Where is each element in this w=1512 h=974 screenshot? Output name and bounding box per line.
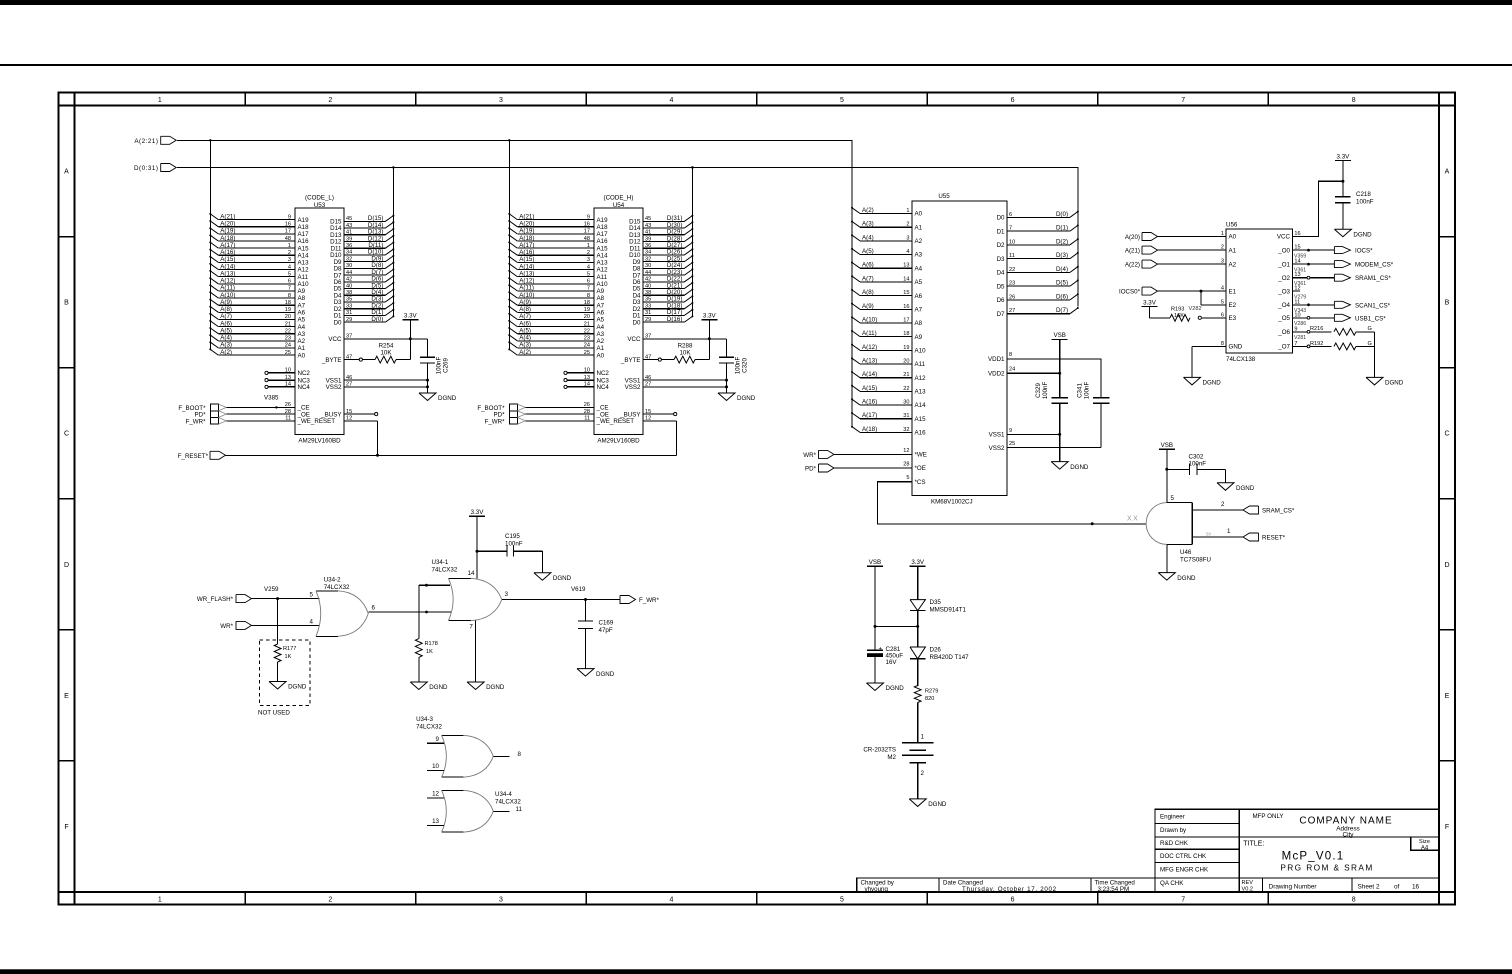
svg-text:VSS2: VSS2 [989,445,1005,452]
svg-text:VSB: VSB [869,559,881,566]
data bus entries out of U54 [643,215,693,323]
svg-text:R216: R216 [1310,326,1323,332]
svg-text:MFP ONLY: MFP ONLY [1253,813,1284,820]
capacitor C195 100nF [477,533,542,573]
svg-text:A(3): A(3) [519,342,531,349]
wire VDD2 pin24 of U55 [1007,372,1061,375]
svg-text:4: 4 [310,618,314,625]
svg-text:12: 12 [432,791,439,798]
wire VCC pin37 of U54 [643,337,727,340]
wires VSS1/VSS2 of U53 [344,379,429,389]
resistor R254 10K pull-up on _BYTE [344,339,410,363]
svg-text:D: D [64,562,69,569]
svg-text:2: 2 [921,770,925,777]
svg-text:D(0): D(0) [371,316,383,323]
svg-text:A8: A8 [298,295,306,302]
svg-text:V361: V361 [1294,267,1306,273]
svg-text:_O0: _O0 [1277,247,1290,254]
svg-text:8: 8 [1352,897,1356,904]
svg-text:_O1: _O1 [1277,261,1290,268]
svg-text:100nF: 100nF [735,357,742,375]
ground DGND below C281 [867,683,905,692]
wire U56 GND pin8 to ground [1192,346,1226,377]
capacitor C281 450uF 16V electrolytic [867,646,903,683]
svg-text:47pF: 47pF [599,627,613,634]
resistor R216 on U56 _O6 [1292,326,1374,341]
svg-text:_O5: _O5 [1277,315,1290,322]
svg-text:A(17): A(17) [862,412,877,419]
svg-text:MMSD914T1: MMSD914T1 [930,607,967,614]
svg-text:(CODE_L): (CODE_L) [305,195,334,202]
input connector A(20) to U56 [1125,233,1226,241]
svg-text:VCC: VCC [1277,234,1291,241]
ground DGND below battery M2 [909,799,947,808]
svg-text:G: G [1368,326,1372,332]
svg-text:A(16): A(16) [862,399,877,406]
svg-text:D26: D26 [930,647,942,654]
svg-text:IOCS*: IOCS* [1355,248,1373,255]
D bus vertical wire for U54 [691,166,693,316]
wire U56 VCC pin16 to 3.3V [1292,180,1344,237]
svg-text:R279: R279 [925,688,938,694]
svg-text:_O4: _O4 [1277,302,1290,309]
svg-text:C195: C195 [505,533,520,540]
svg-text:D4: D4 [997,270,1005,277]
svg-text:_BYTE: _BYTE [321,357,342,364]
svg-text:DGND: DGND [596,671,615,678]
svg-text:D6: D6 [997,297,1005,304]
svg-text:SRAM1_CS*: SRAM1_CS* [1355,275,1391,282]
svg-text:R193: R193 [1171,307,1184,313]
svg-text:KM68V1002CJ: KM68V1002CJ [931,499,973,506]
svg-text:A(20): A(20) [220,221,235,228]
svg-text:A5: A5 [298,317,306,324]
svg-text:A19: A19 [298,217,310,224]
ground DGND below C195 [534,573,572,582]
svg-text:A6: A6 [298,310,306,317]
svg-text:Sheet 2: Sheet 2 [1358,884,1380,891]
svg-text:2: 2 [1221,501,1225,508]
svg-text:1: 1 [158,897,162,904]
svg-text:E2: E2 [1229,302,1237,309]
svg-text:Engineer: Engineer [1160,814,1185,821]
battery M2 CR-2032TS [863,734,933,799]
wire _BUSY pin15 of U54 [643,413,677,416]
svg-text:WR*: WR* [220,623,233,630]
svg-text:A0: A0 [597,352,605,359]
svg-text:A(11): A(11) [519,285,534,292]
svg-text:VCC: VCC [627,336,641,343]
power VSB above U55 decoupling [1052,332,1068,398]
svg-text:A17: A17 [597,231,609,238]
ground DGND below U46 [1158,544,1196,581]
svg-text:10: 10 [432,763,439,770]
svg-text:A(6): A(6) [519,320,531,327]
svg-text:D0: D0 [334,319,342,326]
svg-text:U34-1: U34-1 [432,559,449,566]
wire VDD1 pin8 of U55 [1007,359,1101,398]
svg-text:5: 5 [906,475,909,481]
svg-text:_O6: _O6 [1277,329,1290,336]
svg-text:A4: A4 [1421,845,1429,851]
svg-text:A(7): A(7) [519,313,531,320]
page bottom black bar [0,969,1512,974]
svg-text:A(3): A(3) [862,221,874,228]
svg-text:Size: Size [1419,839,1430,845]
svg-text:A15: A15 [597,245,609,252]
svg-text:V282: V282 [1189,306,1202,312]
address bus entries into U54 [508,213,594,356]
svg-text:_BUSY: _BUSY [619,411,640,418]
input connector D(0:31) data bus [134,164,176,172]
svg-text:Drawn by: Drawn by [1160,827,1187,834]
svg-text:V385: V385 [264,395,279,402]
svg-text:F_WR*: F_WR* [485,418,506,425]
capacitor C218 100nF [1335,191,1374,229]
svg-text:A(16): A(16) [519,249,534,256]
svg-text:DGND: DGND [438,395,457,402]
svg-text:A2: A2 [915,238,923,245]
svg-text:1: 1 [1227,528,1231,535]
svg-text:74LCX32: 74LCX32 [324,584,350,591]
svg-text:USB1_CS*: USB1_CS* [1355,315,1386,322]
svg-text:8: 8 [518,751,522,758]
svg-text:SRAM_CS*: SRAM_CS* [1262,508,1295,515]
svg-text:10K: 10K [380,350,392,357]
schematic border frame [59,93,1455,905]
net label XX on U46 output [1127,516,1139,523]
svg-text:V279: V279 [1294,294,1306,300]
svg-text:1: 1 [921,734,925,741]
svg-text:100nF: 100nF [1084,382,1091,400]
svg-text:IOCS0*: IOCS0* [1119,289,1141,296]
svg-text:A(10): A(10) [220,292,235,299]
svg-text:C329: C329 [1035,383,1042,398]
wire A(2:21) horizontal bus line [177,139,852,427]
svg-text:A18: A18 [298,224,310,231]
svg-text:74LCX32: 74LCX32 [432,567,458,574]
svg-text:A2: A2 [298,338,306,345]
svg-text:C269: C269 [443,358,450,373]
svg-text:_O7: _O7 [1277,344,1290,351]
svg-text:D(7): D(7) [1056,307,1068,314]
svg-text:V286: V286 [1294,321,1306,327]
net label V385 [264,395,279,409]
input connectors F_BOOT*/PD*/F_WR* to U54 [477,404,594,425]
svg-text:A8: A8 [915,320,923,327]
svg-text:A1: A1 [597,345,605,352]
svg-text:A(18): A(18) [220,235,235,242]
svg-text:A(18): A(18) [519,235,534,242]
svg-text:U34-4: U34-4 [495,791,512,798]
svg-text:74LCX138: 74LCX138 [1226,356,1256,363]
svg-text:VSS2: VSS2 [625,384,641,391]
wire U34-1 GND pin7 [475,621,477,682]
input connector WR* to U34-2 [220,621,319,629]
svg-text:100nF: 100nF [1042,382,1049,400]
capacitor C329 100nF [1035,382,1068,462]
svg-text:DGND: DGND [928,801,947,808]
svg-text:A9: A9 [915,334,923,341]
svg-text:A(4): A(4) [862,234,874,241]
svg-text:E3: E3 [1229,315,1237,322]
svg-text:AM29LV160BD: AM29LV160BD [597,438,640,445]
input connector A(21) to U56 [1125,246,1226,254]
svg-text:A12: A12 [597,267,609,274]
svg-text:C341: C341 [1077,383,1084,398]
svg-text:DGND: DGND [1203,380,1222,387]
svg-text:D(6): D(6) [1056,293,1068,300]
svg-text:C: C [1444,431,1449,438]
wire U34-1 output pin3 to F_WR* [502,586,620,601]
resistor R192 on U56 _O7 [1292,341,1374,350]
svg-text:6: 6 [1011,897,1015,904]
svg-text:V343: V343 [1294,308,1306,314]
svg-text:U56: U56 [1226,222,1238,229]
svg-text:F_WR*: F_WR* [186,418,207,425]
svg-text:V281: V281 [1294,335,1306,341]
svg-text:U54: U54 [613,202,625,209]
svg-text:A(21): A(21) [519,213,534,220]
power 3.3V battery section [910,559,926,600]
svg-text:1: 1 [158,97,162,104]
svg-text:A(14): A(14) [519,263,534,270]
power 3.3V above C218 [1335,153,1351,196]
svg-text:11: 11 [516,806,523,813]
wire VCC pin37 of U53 [344,337,428,340]
wires VSS1/VSS2 of U54 [643,379,728,389]
svg-text:McP_V0.1: McP_V0.1 [1282,850,1345,862]
svg-text:E: E [1445,693,1450,700]
wire R216/R192 common to ground [1374,332,1376,378]
svg-text:D2: D2 [997,242,1005,249]
svg-text:R&D CHK: R&D CHK [1160,840,1189,847]
svg-text:6: 6 [372,605,376,612]
svg-text:+: + [879,647,883,653]
svg-text:A2: A2 [1229,261,1237,268]
svg-text:9: 9 [1009,428,1012,434]
svg-text:A14: A14 [298,252,310,259]
input connector WR* to U55 [803,450,912,458]
svg-text:A(2): A(2) [519,349,531,356]
svg-text:NOT USED: NOT USED [258,710,290,717]
svg-text:R288: R288 [678,343,693,350]
svg-text:NC2: NC2 [298,370,311,377]
decoder U56 74LCX138 [1221,222,1301,364]
ground DGND below C269 [419,393,457,402]
svg-text:A11: A11 [298,274,309,281]
wire VSB to 3.3V diode junction [875,625,918,627]
OR gate U34-2 74LCX32 [310,576,376,636]
svg-text:U46: U46 [1180,549,1192,556]
A bus vertical wire for U53 [209,140,211,349]
svg-text:A0: A0 [298,352,306,359]
output connector F_WR* [620,596,660,605]
svg-text:A16: A16 [298,238,310,245]
svg-text:NC4: NC4 [298,384,311,391]
svg-text:C218: C218 [1356,191,1371,198]
svg-text:V619: V619 [571,586,586,593]
svg-text:Drawing Number: Drawing Number [1269,883,1318,890]
svg-text:16V: 16V [886,659,898,666]
svg-text:NC2: NC2 [597,370,610,377]
svg-text:A(17): A(17) [220,242,235,249]
svg-text:A14: A14 [915,402,927,409]
svg-text:Thursday, October 17, 2002: Thursday, October 17, 2002 [962,886,1057,893]
svg-text:D(4): D(4) [1056,266,1068,273]
svg-text:F: F [1445,824,1449,831]
svg-text:A(13): A(13) [220,270,235,277]
power 3.3V pull for U56 E3 [1142,299,1171,318]
input connector A(2:21) address bus [134,136,176,145]
svg-text:D(3): D(3) [1056,252,1068,259]
svg-text:A(13): A(13) [519,270,534,277]
svg-text:14: 14 [468,570,475,577]
svg-text:R254: R254 [379,343,394,350]
svg-text:DOC CTRL CHK: DOC CTRL CHK [1160,853,1207,860]
svg-text:A(9): A(9) [519,299,531,306]
svg-text:A(16): A(16) [220,249,235,256]
svg-text:XX: XX [1127,516,1139,523]
svg-text:A16: A16 [915,430,927,437]
data bus entries out of U55 [1007,211,1079,315]
svg-text:*OE: *OE [915,465,926,472]
wire U55 *CS to gate U46 output [878,482,1147,526]
svg-text:A(6): A(6) [220,320,232,327]
svg-text:A: A [1445,169,1450,176]
svg-text:3.3V: 3.3V [1337,153,1351,160]
svg-text:_BUSY: _BUSY [320,411,341,418]
wire D(0:31) horizontal bus line [177,166,1078,306]
svg-text:3: 3 [505,591,509,598]
svg-text:PD*: PD* [805,465,817,472]
wire VSS1 pin9 of U55 [1007,433,1061,436]
ground DGND below C218 [1334,229,1372,238]
svg-text:3.3V: 3.3V [911,559,925,566]
flash memory U53 AM29LV160BD (CODE_L) [265,195,352,445]
svg-text:A10: A10 [915,348,927,355]
svg-text:A12: A12 [915,375,927,382]
wire U34-2 output to U34-1 inputs [368,584,451,639]
svg-text:F: F [64,824,68,831]
svg-text:A10: A10 [597,281,609,288]
svg-text:D1: D1 [997,228,1005,235]
svg-text:*WE: *WE [915,452,927,459]
svg-text:A15: A15 [915,416,927,423]
svg-text:A10: A10 [298,281,310,288]
svg-text:A11: A11 [597,274,608,281]
svg-text:A(18): A(18) [862,426,877,433]
ground DGND below U56 [1184,377,1222,386]
svg-text:DGND: DGND [1070,464,1089,471]
svg-text:A0: A0 [1229,234,1237,241]
svg-text:A(8): A(8) [519,306,531,313]
svg-text:7: 7 [1181,897,1185,904]
diode D26 RB420D [910,647,969,686]
svg-text:NC4: NC4 [597,384,610,391]
svg-text:A18: A18 [597,224,609,231]
svg-text:A(6): A(6) [862,262,874,269]
svg-text:A4: A4 [298,324,306,331]
svg-text:WR_FLASH*: WR_FLASH* [197,596,234,603]
svg-text:25: 25 [1009,441,1015,447]
svg-text:24: 24 [1009,367,1015,373]
unconnected output _O3 of U56 [1292,291,1306,300]
svg-text:A(7): A(7) [220,313,232,320]
svg-text:D(1): D(1) [1056,225,1068,232]
power VSB above U46 [1159,442,1175,503]
svg-text:A(5): A(5) [862,248,874,255]
svg-text:PRG ROM & SRAM: PRG ROM & SRAM [1280,863,1373,873]
page top horizontal rule [0,64,1512,66]
svg-text:RB420D T147: RB420D T147 [930,654,970,661]
svg-text:100nF: 100nF [1356,199,1374,206]
svg-text:A(4): A(4) [220,335,232,342]
svg-text:A(15): A(15) [862,385,877,392]
svg-text:7: 7 [1181,97,1185,104]
svg-text:1K: 1K [426,649,433,655]
svg-text:A16: A16 [597,238,609,245]
svg-text:820: 820 [925,696,934,702]
svg-text:A(12): A(12) [519,278,534,285]
svg-text:VSS1: VSS1 [989,432,1005,439]
ground DGND below U55 decoupling [1051,462,1089,471]
svg-text:D(0:31): D(0:31) [134,165,159,172]
svg-text:A5: A5 [915,279,923,286]
svg-text:F_RESET*: F_RESET* [178,453,209,460]
svg-text:A9: A9 [597,288,605,295]
svg-text:3.3V: 3.3V [471,509,485,516]
page top black bar [0,0,1512,5]
svg-text:A2: A2 [597,338,605,345]
flash memory U54 AM29LV160BD (CODE_H) [564,195,651,445]
svg-text:10K: 10K [679,350,691,357]
svg-text:13: 13 [432,818,439,825]
svg-text:QA CHK: QA CHK [1160,880,1184,887]
output connector USB1_CS* from U56 [1292,314,1386,327]
svg-text:A12: A12 [298,267,310,274]
ground DGND below U34-1 pin7 [467,682,505,691]
svg-text:A(14): A(14) [220,263,235,270]
ground DGND below C302 [1217,483,1255,492]
output connector IOCS* from U56 [1292,247,1373,260]
svg-text:(CODE_H): (CODE_H) [604,195,634,202]
svg-text:9: 9 [436,736,440,743]
svg-text:A(10): A(10) [862,316,877,323]
capacitor C302 100nF [1167,453,1226,483]
svg-text:12: 12 [903,448,909,454]
capacitor C269 100nF [420,339,450,393]
svg-text:2: 2 [328,897,332,904]
power 3.3V at U53 [402,313,418,339]
svg-text:DGND: DGND [737,395,756,402]
svg-text:sv: sv [1206,531,1212,537]
svg-text:DGND: DGND [1385,380,1404,387]
input connector IOCS0* to U56 E1/E2 [1119,287,1226,305]
svg-text:DGND: DGND [553,575,572,582]
svg-text:VSB: VSB [1161,442,1173,449]
svg-text:16: 16 [1412,884,1420,891]
svg-text:TITLE:: TITLE: [1243,840,1264,847]
svg-text:U55: U55 [938,193,950,200]
svg-text:A(15): A(15) [220,256,235,263]
input connectors F_BOOT*/PD*/F_WR* to U53 [178,404,295,425]
svg-text:A(11): A(11) [862,330,877,337]
svg-text:A(13): A(13) [862,358,877,365]
svg-text:R177: R177 [283,646,296,652]
svg-text:City: City [1342,831,1354,838]
svg-text:A(9): A(9) [862,303,874,310]
